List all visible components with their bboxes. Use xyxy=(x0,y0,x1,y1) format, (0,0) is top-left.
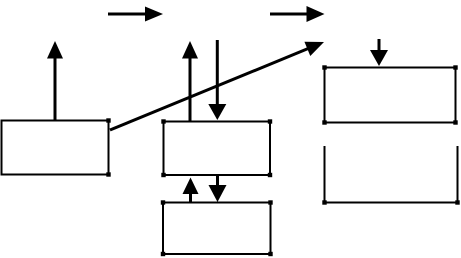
arrow down between middle and bottom boxes xyxy=(209,176,227,202)
arrow up above middle box xyxy=(182,41,198,121)
box middle xyxy=(164,122,271,176)
corner nubs on boxes xyxy=(106,65,459,256)
arrow top-right horizontal xyxy=(270,6,325,22)
box right-bottom (open top) xyxy=(325,146,458,203)
arrow up between bottom and middle boxes xyxy=(183,178,199,203)
diagonal arrow from left box to upper right xyxy=(110,35,327,130)
arrow top-left horizontal xyxy=(108,7,163,22)
box left xyxy=(2,121,109,175)
arrow down into middle box xyxy=(208,40,226,120)
arrow up from left box xyxy=(47,41,63,120)
arrow down into right-top box xyxy=(370,39,388,66)
box right-top xyxy=(325,68,456,123)
box bottom xyxy=(163,203,271,255)
